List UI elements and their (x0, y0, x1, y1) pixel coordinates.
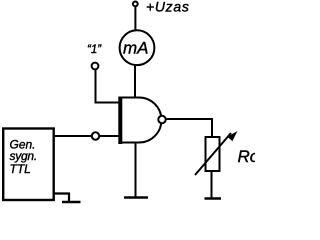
svg-text:TTL: TTL (10, 162, 31, 176)
svg-text:mA: mA (123, 39, 149, 58)
svg-text:sygn.: sygn. (10, 149, 37, 163)
svg-text:Ro: Ro (238, 147, 256, 166)
svg-text:+Uzas: +Uzas (146, 0, 190, 15)
svg-text:“1”: “1” (87, 44, 102, 56)
